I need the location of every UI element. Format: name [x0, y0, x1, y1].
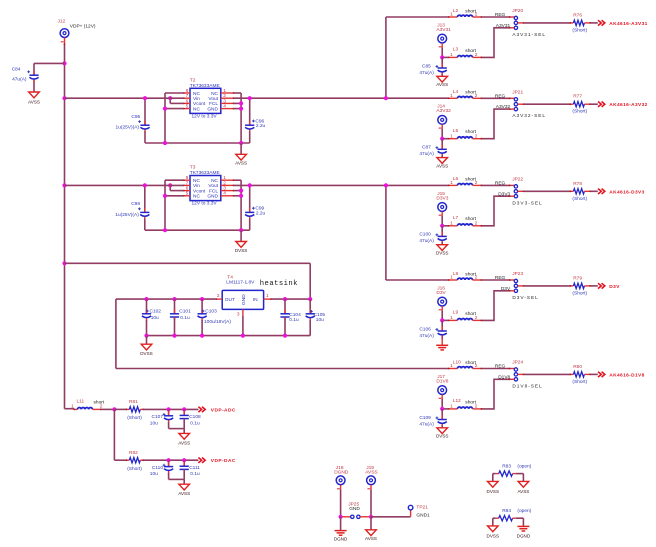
svg-text:GND: GND [241, 294, 247, 305]
capacitor C101 0.1u [170, 299, 191, 336]
junction T2 rail left riser [163, 141, 167, 145]
svg-text:NC: NC [193, 91, 200, 97]
wire J17 to junction [442, 399, 448, 409]
svg-text:L9: L9 [453, 310, 459, 316]
svg-text:1u(25V)(A): 1u(25V)(A) [116, 125, 140, 131]
svg-text:AVSS: AVSS [235, 161, 247, 166]
ground DVSS (R83) [487, 481, 500, 494]
svg-text:L5: L5 [453, 128, 459, 134]
jumper JP21 [512, 90, 523, 111]
svg-text:2.2u: 2.2u [256, 123, 266, 129]
wire T3 NC riser left [165, 180, 184, 230]
wire JP23 middle pin out [518, 285, 571, 287]
wire J18 down [340, 489, 342, 517]
wire T2 ground rail [145, 142, 250, 144]
label A3V32-SEL [512, 113, 546, 119]
net label AK4616-A3V32 [609, 102, 647, 108]
inductor L12 short [448, 398, 482, 410]
svg-text:D1V8: D1V8 [498, 374, 510, 380]
svg-text:R80: R80 [573, 364, 582, 370]
svg-text:NC: NC [193, 194, 200, 200]
junction J13 [440, 55, 444, 59]
svg-text:T3: T3 [190, 165, 196, 171]
svg-text:TP21: TP21 [416, 505, 428, 511]
inductor L10 short [448, 359, 482, 369]
wire VDP 12V trunk [64, 45, 66, 409]
svg-text:3: 3 [237, 312, 240, 318]
svg-text:10u: 10u [150, 471, 158, 477]
testpoint TP21 GND1 [408, 505, 430, 519]
ground AVSS (R81) [178, 433, 190, 445]
svg-text:10u: 10u [151, 315, 159, 321]
capacitor C105 10u [306, 299, 326, 336]
jumper JP20 [512, 8, 523, 29]
connector J17 D1V8 [436, 374, 448, 399]
net arrow AK4616-A3V31 [598, 20, 605, 25]
label REG [495, 12, 506, 18]
svg-text:(open): (open) [517, 463, 531, 469]
wire L2 to JP20 [482, 16, 515, 18]
wire R82 output [144, 459, 199, 461]
junction T2 FCL [239, 101, 243, 105]
label D3V3-SEL [512, 200, 542, 206]
ground AVSS T2 [235, 143, 247, 166]
svg-text:AVSS: AVSS [178, 491, 190, 496]
junction T3 FCL [239, 189, 243, 193]
wire JP22 middle pin out [518, 190, 571, 192]
svg-text:heatsink: heatsink [260, 280, 298, 288]
capacitor C108 0.1u [180, 409, 201, 428]
svg-text:A3V32-SEL: A3V32-SEL [512, 113, 546, 119]
capacitor C99 2.2u [245, 185, 265, 230]
svg-text:L7: L7 [453, 215, 459, 221]
svg-text:REG: REG [495, 181, 506, 187]
svg-text:JP22: JP22 [512, 177, 523, 183]
svg-text:NC: NC [211, 178, 218, 184]
capacitor C102 10u [142, 299, 161, 336]
svg-text:AVSS: AVSS [436, 82, 448, 87]
svg-text:AVSS: AVSS [178, 440, 190, 445]
svg-text:VDP-DAC: VDP-DAC [211, 458, 236, 464]
svg-text:1: 1 [450, 404, 453, 410]
svg-text:2: 2 [475, 275, 478, 281]
junction rail-GND pin [241, 334, 245, 338]
wire JP23 bottom pin to L9 [482, 290, 515, 321]
svg-text:Vout: Vout [208, 96, 218, 102]
inductor L2 short [448, 8, 482, 18]
wire J14 to junction [442, 129, 448, 139]
svg-text:AVSS: AVSS [436, 163, 448, 168]
junction J19-JP25 [369, 515, 373, 519]
net arrow AK4616-D3V3 [598, 189, 605, 194]
net label VDP-DAC [211, 458, 236, 464]
svg-text:D1V8: D1V8 [436, 378, 448, 384]
svg-text:R81: R81 [129, 399, 138, 405]
resistor R78 (Short) [570, 181, 591, 202]
capacitor C98 1u(25V)(A) [115, 185, 149, 230]
svg-text:0.1u: 0.1u [190, 471, 200, 477]
inductor L5 short [448, 128, 482, 140]
capacitor C110 10u [150, 460, 173, 479]
ground AVSS (R82) [178, 484, 190, 496]
svg-text:C103: C103 [205, 309, 217, 315]
svg-text:A3V31-SEL: A3V31-SEL [512, 32, 546, 38]
svg-text:C106: C106 [419, 326, 431, 332]
ground DVSS (LM1117) [140, 336, 153, 357]
label D1V8 select net [498, 374, 510, 380]
svg-text:0.1u: 0.1u [180, 315, 190, 321]
wire T3 Vout to blocks [234, 184, 449, 186]
wire R77 to arrow [590, 103, 598, 105]
svg-text:DGND: DGND [334, 537, 348, 542]
junction C96-Vout [248, 96, 252, 100]
ground AVSS (J19) [365, 517, 377, 541]
svg-text:C87: C87 [422, 145, 431, 151]
ground AVSS (C87) [436, 158, 448, 169]
wire feed row JP21 [448, 97, 450, 99]
wire R80 to arrow [590, 373, 598, 375]
resistor R76 (Short) [570, 12, 591, 33]
wire JP20 middle pin out [518, 22, 571, 24]
wire trunk to L11 [65, 408, 75, 410]
ground AVSS (C84) [28, 92, 40, 104]
wire junction to R81 [114, 408, 126, 410]
ground DGND (C106) [436, 338, 448, 350]
label D1V8-SEL [512, 383, 542, 389]
svg-text:Vin: Vin [193, 183, 200, 189]
svg-text:0.1u: 0.1u [190, 420, 200, 426]
wire R81 output [144, 408, 199, 410]
svg-text:C100: C100 [419, 232, 431, 238]
junction C111 [182, 458, 186, 462]
ground DGND (R84) [517, 526, 531, 538]
junction riser-T3 Vout [384, 183, 388, 187]
svg-text:DVSS: DVSS [140, 351, 153, 356]
wire L6 to JP22 [482, 185, 515, 187]
wire J13 to junction [442, 47, 448, 57]
svg-text:A3V32: A3V32 [436, 108, 451, 114]
wire LM1117 OUT run [116, 299, 216, 368]
svg-text:AK4616-A3V32: AK4616-A3V32 [609, 102, 647, 108]
svg-text:GND: GND [207, 106, 218, 112]
svg-text:R83: R83 [502, 463, 511, 469]
wire T3 ground rail [145, 229, 250, 231]
connector J19 AVSS [365, 465, 377, 489]
wire JP21 bottom pin to L5 [482, 108, 515, 139]
junction J14 [440, 137, 444, 141]
svg-text:C111: C111 [189, 465, 200, 471]
svg-text:GND: GND [349, 506, 360, 512]
svg-text:L11: L11 [77, 398, 85, 404]
wire J16 to junction [442, 310, 448, 320]
junction ADC/DAC split [112, 407, 116, 411]
ground DVSS T3 [235, 230, 248, 253]
net arrow VDP-DAC [198, 458, 205, 463]
connector J15 D3V3 [436, 191, 448, 216]
net label VDP-ADC [211, 407, 236, 413]
svg-text:Vcont: Vcont [193, 188, 206, 194]
junction T3 GND [239, 194, 243, 198]
wire L4 to JP21 [482, 97, 515, 99]
svg-text:47u(A): 47u(A) [419, 238, 434, 244]
svg-text:2: 2 [475, 133, 478, 139]
svg-text:1: 1 [450, 315, 453, 321]
svg-text:DVSS: DVSS [487, 533, 500, 538]
label REG [495, 364, 506, 370]
svg-text:2: 2 [475, 52, 478, 58]
svg-text:AK4616-A3V31: AK4616-A3V31 [609, 21, 647, 27]
svg-text:D3V3: D3V3 [436, 195, 448, 201]
capacitor C100 47u(A) [419, 226, 446, 245]
svg-text:NC: NC [211, 91, 218, 97]
wire L8 to JP23 [482, 279, 515, 281]
ground DVSS (C100) [436, 245, 449, 256]
svg-text:(Short): (Short) [572, 27, 587, 33]
junction T3 Vcont-Vin [168, 183, 172, 187]
svg-text:C95: C95 [131, 114, 140, 120]
svg-text:2: 2 [475, 180, 478, 186]
svg-text:Vout: Vout [208, 183, 218, 189]
svg-text:D1V8-SEL: D1V8-SEL [512, 383, 542, 389]
svg-text:DGND: DGND [517, 533, 531, 538]
inductor L11 short [71, 398, 105, 410]
svg-text:GND: GND [207, 194, 218, 200]
wire T3 Vcont tie [170, 185, 184, 190]
wire R84 right leg [522, 518, 524, 526]
junction J17 [440, 407, 444, 411]
svg-text:AK4616-D1V8: AK4616-D1V8 [609, 372, 644, 378]
svg-text:1: 1 [450, 275, 453, 281]
capacitor C103 100u/16V(A) [198, 299, 232, 336]
junction C110 [167, 458, 171, 462]
svg-text:12V to 3.3V: 12V to 3.3V [192, 113, 218, 119]
svg-text:A3V32: A3V32 [496, 104, 511, 110]
svg-text:(Short): (Short) [127, 415, 142, 421]
wire feed row JP22 [448, 184, 450, 186]
wire T2 Vin feed [65, 97, 184, 99]
label REG [495, 275, 506, 281]
svg-text:2: 2 [475, 363, 478, 369]
junction rail-DVSS [144, 334, 148, 338]
svg-text:2: 2 [475, 12, 478, 18]
svg-text:(Short): (Short) [572, 196, 587, 202]
junction IN-C105 [308, 297, 312, 301]
junction riser-T2 Vout [384, 96, 388, 100]
junction C107 [167, 407, 171, 411]
wire D1V8 feed [116, 368, 449, 370]
junction OUT-C102 [144, 297, 148, 301]
junction T3 rail left riser [163, 228, 167, 232]
wire C107 cap ground [169, 429, 185, 434]
wire T2 Vcont tie [170, 98, 184, 103]
inductor L4 short [448, 89, 482, 99]
wire L10 to JP24 [482, 368, 515, 370]
junction C108 [182, 407, 186, 411]
wire JP22 bottom pin to L7 [482, 195, 515, 226]
label A3V31-SEL [512, 32, 546, 38]
junction J16 [440, 318, 444, 322]
svg-text:JP23: JP23 [512, 271, 523, 277]
svg-text:DVSS: DVSS [235, 248, 248, 253]
capacitor C104 0.1u [280, 299, 301, 336]
svg-text:47u(A): 47u(A) [419, 151, 434, 157]
svg-text:VDP-ADC: VDP-ADC [211, 407, 236, 413]
svg-text:1: 1 [450, 363, 453, 369]
ground AVSS (R83) [517, 481, 529, 494]
wire junction to R82 [114, 459, 126, 461]
wire LM1117 ground rail [147, 335, 311, 337]
svg-text:C109: C109 [419, 415, 431, 421]
svg-text:TK73633AME: TK73633AME [190, 83, 220, 89]
regulator T2 TK73633AME [183, 77, 235, 119]
svg-text:C101: C101 [179, 309, 191, 315]
svg-text:1: 1 [266, 293, 269, 299]
resistor R80 (Short) [570, 364, 591, 385]
jumper JP25 GND [341, 501, 371, 518]
connector J16 D3V [436, 285, 446, 310]
junction T3 rail right riser [239, 228, 243, 232]
svg-text:JP24: JP24 [512, 360, 523, 366]
wire C84 branch [34, 63, 65, 92]
svg-text:VDP+ (12V): VDP+ (12V) [70, 23, 96, 29]
wire JP24 middle pin out [518, 374, 571, 376]
svg-text:NC: NC [193, 106, 200, 112]
junction rail-C101 [172, 334, 176, 338]
svg-text:(open): (open) [517, 508, 531, 514]
svg-text:L3: L3 [453, 47, 459, 53]
capacitor C85 47u(A) [419, 57, 446, 76]
capacitor C106 47u(A) [419, 320, 446, 339]
capacitor C87 47u(A) [419, 139, 446, 158]
wire T2 NC riser left [165, 93, 184, 143]
svg-text:R82: R82 [129, 450, 138, 456]
svg-text:REG: REG [495, 94, 506, 100]
jumper JP23 [512, 271, 523, 292]
wire R76 to arrow [590, 22, 598, 24]
svg-text:AK4616-D3V3: AK4616-D3V3 [609, 189, 644, 195]
svg-text:L10: L10 [453, 359, 461, 365]
wire L11 to junction [101, 408, 114, 410]
svg-text:AVSS: AVSS [28, 99, 40, 104]
connector J14 A3V32 [436, 104, 451, 129]
svg-text:1: 1 [450, 220, 453, 226]
wire T2 Vout to blocks [234, 97, 449, 99]
wire JP20 bottom pin to L3 [482, 27, 515, 58]
svg-text:1: 1 [450, 93, 453, 99]
svg-text:OUT: OUT [225, 297, 235, 303]
inductor L9 short [448, 310, 482, 322]
connector J18 DGND [334, 465, 349, 489]
net arrow AK4616-D1V8 [598, 372, 605, 377]
svg-text:D3V: D3V [436, 290, 446, 296]
resistor R84 (open) [493, 508, 532, 521]
junction C98-Vin [143, 183, 147, 187]
svg-text:1: 1 [71, 404, 74, 410]
svg-text:2: 2 [217, 293, 220, 299]
svg-text:FCL: FCL [209, 101, 218, 107]
wire LM1117 GND pin [242, 316, 244, 336]
svg-text:R78: R78 [573, 181, 582, 187]
label A3V32 select net [496, 104, 511, 110]
svg-text:L8: L8 [453, 271, 459, 277]
ground DVSS (R84) [487, 526, 500, 539]
svg-text:J12: J12 [58, 18, 66, 24]
svg-text:R76: R76 [573, 12, 582, 18]
svg-text:C84: C84 [12, 66, 21, 72]
svg-text:C110: C110 [152, 465, 163, 471]
svg-text:DVSS: DVSS [436, 250, 449, 255]
junction J18-JP25 [339, 515, 343, 519]
svg-text:DGND: DGND [334, 469, 349, 475]
net label AK4616-A3V31 [609, 21, 647, 27]
svg-text:(Short): (Short) [572, 290, 587, 296]
connector J12 VDP+ (12V) [58, 18, 69, 45]
svg-text:AVSS: AVSS [365, 469, 377, 475]
capacitor C109 47u(A) [419, 409, 446, 428]
wire R84 left leg [492, 518, 494, 526]
resistor R77 (Short) [570, 94, 591, 115]
resistor R81 (Short) [126, 399, 145, 421]
connector J13 A3V31 [436, 22, 451, 47]
resistor R79 (Short) [570, 275, 591, 296]
junction J15 [440, 224, 444, 228]
svg-text:A3V31: A3V31 [496, 23, 511, 29]
svg-text:1: 1 [450, 180, 453, 186]
svg-text:GND1: GND1 [416, 512, 430, 518]
svg-text:2: 2 [475, 93, 478, 99]
junction C95-Vin [143, 96, 147, 100]
svg-text:A3V31: A3V31 [436, 27, 451, 33]
svg-text:R79: R79 [573, 275, 582, 281]
svg-text:REG: REG [495, 364, 506, 370]
wire C110 cap ground [169, 479, 185, 484]
svg-text:L2: L2 [453, 8, 459, 14]
svg-text:2.2u: 2.2u [256, 210, 266, 216]
label heatsink [260, 280, 298, 288]
svg-text:IN: IN [253, 297, 258, 303]
wire feed row JP24 [448, 368, 450, 370]
svg-text:R84: R84 [502, 508, 511, 514]
svg-text:1u(25V)(A): 1u(25V)(A) [115, 212, 139, 218]
wire JP24 bottom pin to L12 [482, 378, 515, 409]
jumper JP24 [512, 360, 523, 381]
svg-text:C85: C85 [422, 63, 431, 69]
svg-text:47u(A): 47u(A) [419, 421, 434, 427]
svg-text:L12: L12 [453, 398, 461, 404]
resistor R82 (Short) [126, 450, 145, 472]
capacitor C95 1u(25V)(A) [116, 98, 150, 143]
resistor R83 (open) [493, 463, 532, 476]
net label D3V [609, 284, 620, 290]
svg-text:C102: C102 [150, 309, 162, 315]
label D3V select net [501, 286, 511, 292]
wire riser A3V31 feed [386, 17, 449, 98]
svg-text:D3V-SEL: D3V-SEL [512, 295, 538, 301]
wire R79 to arrow [590, 285, 598, 287]
svg-text:AVSS: AVSS [517, 489, 529, 494]
label D3V3 select net [498, 191, 510, 197]
wire R83 right leg [522, 474, 524, 482]
svg-text:REG: REG [495, 275, 506, 281]
net label AK4616-D1V8 [609, 372, 644, 378]
capacitor C96 2.2u [245, 98, 265, 143]
svg-text:(Short): (Short) [572, 379, 587, 385]
wire to TP21 [371, 510, 411, 517]
wire LM1117 IN feed [65, 263, 311, 299]
svg-text:Vcont: Vcont [193, 101, 206, 107]
regulator T4 LM1117-1.8V [215, 274, 271, 317]
junction T3 pin5 [163, 194, 167, 198]
